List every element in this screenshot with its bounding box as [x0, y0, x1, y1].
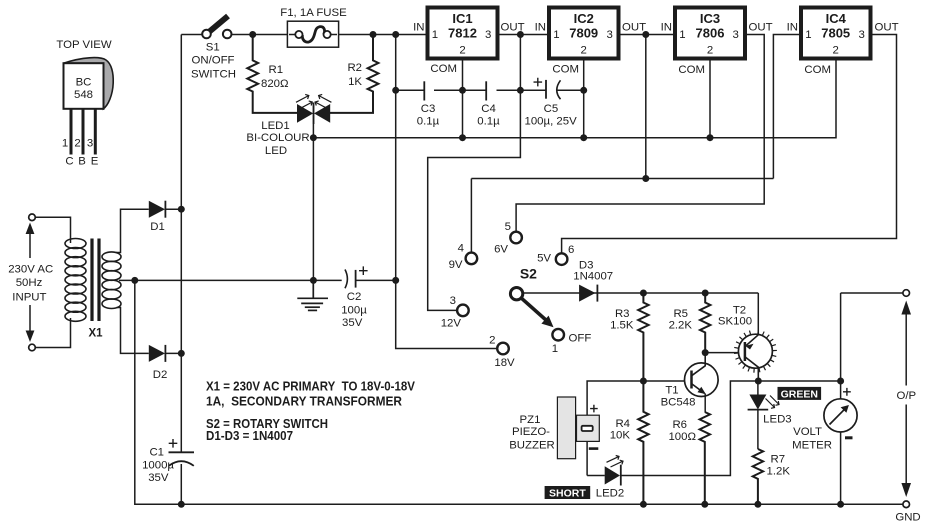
svg-text:BC: BC — [76, 77, 92, 89]
wire IC1 pin2 — [462, 59, 464, 138]
capacitor C5 100u 25V — [525, 78, 578, 128]
svg-text:0.1µ: 0.1µ — [417, 116, 440, 128]
wire IC1 out to IC2 in — [498, 34, 550, 36]
svg-text:IC3: IC3 — [700, 11, 720, 26]
wire AC input leads — [35, 217, 70, 347]
svg-text:R7: R7 — [771, 454, 786, 466]
svg-text:7805: 7805 — [821, 26, 850, 41]
svg-text:IN: IN — [787, 22, 798, 34]
svg-text:OUT: OUT — [622, 22, 646, 34]
svg-text:OUT: OUT — [749, 22, 773, 34]
svg-text:10K: 10K — [610, 430, 631, 442]
wire centre tap line — [119, 279, 396, 281]
svg-text:C: C — [65, 156, 73, 168]
svg-text:7809: 7809 — [569, 26, 598, 41]
svg-text:INPUT: INPUT — [12, 292, 46, 304]
capacitor C2 100u 35V — [341, 266, 367, 329]
transistor T1 BC548 — [661, 353, 719, 412]
svg-text:18V: 18V — [494, 357, 515, 369]
svg-text:IN: IN — [413, 22, 424, 34]
svg-text:OUT: OUT — [875, 22, 899, 34]
diode D3 — [573, 260, 613, 302]
svg-text:4: 4 — [458, 243, 464, 255]
svg-text:VOLT: VOLT — [793, 426, 822, 438]
svg-text:1.5K: 1.5K — [610, 320, 634, 332]
svg-text:1: 1 — [805, 29, 811, 41]
wire unregulated DC vertical — [180, 35, 182, 505]
svg-text:COM: COM — [804, 64, 831, 76]
regulator IC1 7812 — [413, 8, 524, 76]
svg-text:0.1µ: 0.1µ — [477, 116, 500, 128]
piezo buzzer PZ1 — [509, 397, 599, 459]
diode D2 — [149, 345, 182, 381]
svg-text:SK100: SK100 — [718, 316, 752, 328]
svg-text:LED1: LED1 — [261, 120, 290, 132]
svg-text:3: 3 — [607, 29, 613, 41]
node pad 2 18V — [489, 335, 515, 370]
svg-text:S2: S2 — [520, 266, 537, 282]
svg-text:R4: R4 — [615, 418, 630, 430]
svg-text:100µ: 100µ — [341, 305, 367, 317]
svg-text:IC4: IC4 — [826, 11, 847, 26]
wire secondary bottom lead — [117, 308, 149, 354]
svg-text:O/P: O/P — [896, 390, 916, 402]
svg-text:R2: R2 — [347, 62, 362, 74]
svg-text:B: B — [78, 156, 86, 168]
terminal O/P — [896, 290, 916, 497]
svg-text:IC1: IC1 — [452, 11, 472, 26]
svg-text:R3: R3 — [615, 308, 630, 320]
switch S1 — [191, 16, 236, 81]
wire T2 collector junction to meter line — [758, 380, 840, 382]
svg-text:PIEZO-: PIEZO- — [512, 426, 550, 438]
svg-text:X1: X1 — [88, 328, 103, 340]
svg-text:1: 1 — [62, 138, 68, 150]
resistor R7 1.2K — [753, 449, 791, 504]
node pad 1 OFF — [552, 329, 592, 355]
svg-text:1A, SECONDARY TRANSFORMER: 1A, SECONDARY TRANSFORMER — [206, 394, 402, 408]
svg-text:100µ, 25V: 100µ, 25V — [525, 116, 578, 128]
svg-text:BI-COLOUR: BI-COLOUR — [246, 132, 309, 144]
resistor R1 820ohm — [247, 35, 297, 113]
svg-text:D2: D2 — [153, 369, 168, 381]
ground symbol — [297, 280, 328, 310]
svg-text:2: 2 — [707, 45, 713, 57]
AC input terminals and label — [8, 214, 70, 351]
node pad 3 12V — [441, 295, 469, 329]
svg-text:C5: C5 — [544, 103, 559, 115]
svg-text:COM: COM — [678, 64, 705, 76]
svg-text:LED: LED — [265, 145, 287, 157]
wire secondary top lead — [116, 209, 149, 252]
transistor BC548 top view package — [56, 39, 113, 168]
svg-text:548: 548 — [74, 89, 93, 101]
diode D1 — [149, 201, 182, 233]
svg-text:IC2: IC2 — [574, 11, 594, 26]
svg-text:GREEN: GREEN — [781, 388, 818, 400]
svg-text:2.2K: 2.2K — [669, 320, 693, 332]
svg-text:BUZZER: BUZZER — [509, 440, 555, 452]
capacitor C4 0.1u — [477, 81, 500, 127]
fuse F1 — [280, 7, 347, 47]
svg-text:X1 = 230V AC PRIMARY TO 18V-0: X1 = 230V AC PRIMARY TO 18V-0-18V — [206, 379, 416, 393]
svg-text:50Hz: 50Hz — [16, 277, 43, 289]
resistor R5 2.2K — [669, 293, 711, 353]
svg-text:230V AC: 230V AC — [8, 264, 53, 276]
svg-text:1.2K: 1.2K — [767, 466, 791, 478]
wire IC1 out drop to 12V pad3 — [428, 35, 521, 311]
node pad 4 9V — [449, 243, 478, 272]
svg-text:OUT: OUT — [501, 22, 525, 34]
wire IC4 in from 9V rail — [471, 35, 801, 253]
wire centre tap to bottom rail — [135, 280, 903, 504]
svg-text:D1: D1 — [150, 221, 165, 233]
terminal GND — [895, 501, 920, 524]
svg-text:6V: 6V — [494, 244, 508, 256]
rotary switch S2 — [510, 266, 553, 328]
annotation notes — [206, 379, 416, 443]
svg-text:3: 3 — [87, 138, 93, 150]
svg-text:C1: C1 — [149, 447, 164, 459]
svg-text:3: 3 — [733, 29, 739, 41]
regulator IC4 7805 — [787, 8, 899, 77]
resistor R6 100ohm — [668, 412, 710, 504]
svg-text:S1: S1 — [206, 42, 220, 54]
svg-text:T1: T1 — [665, 385, 678, 397]
svg-text:1N4007: 1N4007 — [573, 271, 613, 283]
wire base line buzzer to T1 — [587, 381, 691, 415]
svg-text:3: 3 — [485, 29, 491, 41]
svg-text:1: 1 — [679, 29, 685, 41]
svg-text:C4: C4 — [481, 103, 496, 115]
capacitor C3 0.1u — [417, 81, 440, 127]
wire IC2 out to IC3 in — [619, 34, 676, 36]
svg-text:9V: 9V — [449, 259, 463, 271]
svg-text:1: 1 — [432, 29, 438, 41]
svg-text:COM: COM — [430, 63, 457, 75]
resistor R2 1K — [330, 35, 378, 113]
svg-text:3: 3 — [859, 29, 865, 41]
resistor R4 10K — [610, 381, 649, 504]
wire top rail — [181, 34, 427, 36]
wire S2 rotor to D3 to T2 — [524, 293, 759, 334]
svg-text:E: E — [91, 156, 99, 168]
svg-text:5V: 5V — [537, 253, 551, 265]
svg-text:LED2: LED2 — [596, 488, 625, 500]
svg-text:12V: 12V — [441, 317, 462, 329]
svg-text:GND: GND — [895, 512, 920, 524]
svg-text:2: 2 — [74, 138, 80, 150]
transistor T2 SK100 — [718, 304, 777, 381]
wire COM rail y90 — [396, 89, 584, 91]
svg-text:6: 6 — [568, 244, 574, 256]
LED LED2 — [596, 456, 625, 500]
svg-text:METER: METER — [792, 440, 832, 452]
svg-text:1000µ: 1000µ — [142, 459, 174, 471]
label GREEN — [778, 387, 822, 401]
svg-text:2: 2 — [833, 45, 839, 57]
wire IC3 pin2 — [709, 59, 711, 138]
wire IC4 out to 5V rail to pad6 — [562, 35, 897, 253]
node pad 5 6V — [494, 221, 522, 256]
label SHORT — [545, 486, 591, 500]
svg-text:C2: C2 — [347, 291, 362, 303]
svg-text:1: 1 — [553, 29, 559, 41]
wire T2 junction down-left to LED2 — [621, 381, 759, 476]
svg-text:1: 1 — [552, 343, 558, 355]
svg-text:SWITCH: SWITCH — [191, 69, 236, 81]
wire COM rail y137 to IC4 pin2 — [313, 59, 836, 138]
svg-text:2: 2 — [489, 335, 495, 347]
svg-text:35V: 35V — [148, 472, 169, 484]
svg-text:R6: R6 — [672, 419, 687, 431]
regulator IC2 7809 — [535, 8, 646, 76]
svg-text:BC548: BC548 — [661, 397, 696, 409]
LED LED1 bi-colour — [246, 94, 331, 157]
svg-text:SHORT: SHORT — [549, 488, 586, 500]
resistor R3 1.5K — [610, 293, 649, 381]
wire IC2 out drop to 9V rail — [645, 35, 647, 179]
svg-text:IN: IN — [535, 22, 546, 34]
svg-text:ON/OFF: ON/OFF — [191, 55, 234, 67]
svg-text:IN: IN — [661, 22, 672, 34]
wire LED1 centre to ground node — [312, 103, 314, 280]
wire meter vertical and O/P top — [841, 293, 903, 504]
svg-text:7806: 7806 — [696, 26, 725, 41]
svg-text:R1: R1 — [269, 64, 284, 76]
svg-text:TOP VIEW: TOP VIEW — [56, 39, 112, 51]
svg-text:820Ω: 820Ω — [261, 78, 289, 90]
svg-text:T2: T2 — [733, 304, 746, 316]
wire IC2 pin2 — [583, 59, 585, 138]
svg-text:2: 2 — [459, 45, 465, 57]
svg-text:2: 2 — [581, 45, 587, 57]
svg-text:OFF: OFF — [569, 333, 592, 345]
svg-text:PZ1: PZ1 — [520, 414, 541, 426]
svg-text:LED3: LED3 — [763, 414, 792, 426]
svg-text:R5: R5 — [673, 308, 688, 320]
svg-text:35V: 35V — [342, 317, 363, 329]
svg-text:COM: COM — [552, 64, 579, 76]
LED LED3 — [748, 381, 792, 449]
wire R5 bottom to T2 base — [705, 352, 745, 354]
wire LED2 to buzzer minus — [587, 441, 605, 475]
node pad 6 5V — [537, 244, 574, 265]
svg-text:F1, 1A FUSE: F1, 1A FUSE — [280, 7, 347, 19]
svg-text:C3: C3 — [421, 103, 436, 115]
svg-text:7812: 7812 — [448, 26, 477, 41]
svg-text:D1-D3 = 1N4007: D1-D3 = 1N4007 — [206, 429, 293, 443]
transformer X1 — [65, 209, 149, 353]
wire IC3 out to 6V rail to pad5 — [516, 35, 764, 232]
wire fuse node to C2 and 18V pad2 — [396, 35, 497, 349]
capacitor C1 1000u — [142, 439, 194, 484]
svg-text:3: 3 — [450, 295, 456, 307]
svg-text:1K: 1K — [348, 76, 362, 88]
regulator IC3 7806 — [661, 8, 773, 77]
svg-text:100Ω: 100Ω — [668, 431, 696, 443]
svg-text:5: 5 — [505, 221, 511, 233]
volt meter M1 — [792, 388, 857, 452]
